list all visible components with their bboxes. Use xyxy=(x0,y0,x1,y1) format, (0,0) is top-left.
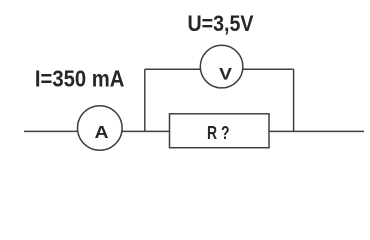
resistor R? box xyxy=(170,114,270,148)
svg-text:U=3,5V: U=3,5V xyxy=(188,11,254,36)
wire voltmeter branch left xyxy=(145,68,201,70)
wire node A vertical branch xyxy=(144,69,146,131)
wire ammeter to node A xyxy=(122,130,170,132)
ammeter A1 circle xyxy=(78,106,123,151)
svg-text:R ?: R ? xyxy=(207,123,230,143)
svg-text:I=350 mA: I=350 mA xyxy=(35,66,125,92)
voltmeter V1 circle xyxy=(200,45,243,88)
wire resistor right to node B xyxy=(269,130,364,132)
wire voltmeter branch right xyxy=(243,68,294,70)
svg-text:V: V xyxy=(219,64,233,83)
svg-text:A: A xyxy=(95,122,109,142)
wire main left segment xyxy=(24,130,78,132)
wire node B vertical branch xyxy=(293,69,295,131)
